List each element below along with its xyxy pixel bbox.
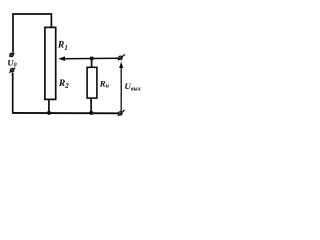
svg-text:Uвых: Uвых — [125, 81, 141, 93]
svg-text:Rн: Rн — [99, 78, 110, 89]
svg-text:R1: R1 — [57, 40, 68, 52]
svg-text:U0: U0 — [7, 58, 16, 69]
svg-text:R2: R2 — [58, 78, 69, 90]
